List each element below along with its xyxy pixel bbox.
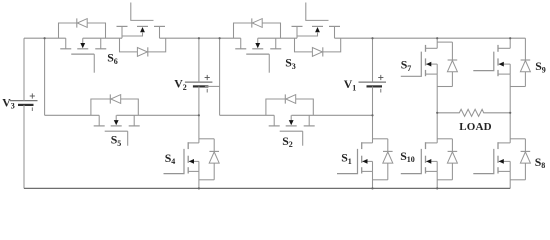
wire <box>44 38 46 115</box>
battery V1 <box>359 81 387 83</box>
wire <box>258 37 297 39</box>
diode of S5 <box>91 99 138 115</box>
svg-text:S4: S4 <box>165 151 176 166</box>
wire <box>509 38 511 48</box>
transistor S3 right FET <box>292 25 303 27</box>
svg-text:V3: V3 <box>2 95 15 110</box>
wire <box>335 37 526 39</box>
wire <box>83 37 122 39</box>
wire <box>24 37 66 39</box>
wire bottom rail <box>24 187 510 189</box>
svg-text:S7: S7 <box>401 58 412 73</box>
transistor S9 <box>497 45 499 52</box>
wire <box>372 86 374 115</box>
wire <box>436 38 438 48</box>
svg-text:S10: S10 <box>400 149 415 164</box>
transistor S1 <box>361 142 363 149</box>
transistor S2 <box>269 125 280 127</box>
wire <box>198 171 200 188</box>
diode of S1 <box>373 138 388 140</box>
wire <box>436 113 438 143</box>
diode of S4 <box>199 138 214 140</box>
diode of S2 <box>266 99 313 115</box>
battery V2 <box>185 81 213 83</box>
svg-text:S3: S3 <box>285 56 296 71</box>
wire <box>23 105 25 188</box>
wire <box>436 74 438 113</box>
wire <box>198 115 200 143</box>
svg-text:V2: V2 <box>174 77 187 92</box>
diode of S3 right FET <box>295 38 341 52</box>
transistor S6 right FET <box>117 25 128 27</box>
diode of S8 <box>510 138 525 140</box>
diode of S9 <box>524 38 526 60</box>
svg-text:LOAD: LOAD <box>459 121 492 133</box>
wire <box>160 37 241 39</box>
wire <box>198 38 200 82</box>
resistor LOAD <box>437 109 510 116</box>
wire <box>372 38 374 82</box>
junction dots <box>44 37 46 39</box>
diode of S10 <box>437 138 452 140</box>
svg-text:S8: S8 <box>535 155 546 170</box>
transistor S10 <box>425 142 427 149</box>
wire <box>45 114 100 116</box>
battery V3 <box>10 100 38 102</box>
wire <box>436 171 438 188</box>
transistor S5 <box>94 125 105 127</box>
wire <box>23 38 25 100</box>
wire <box>292 114 373 116</box>
svg-text:S5: S5 <box>111 133 122 148</box>
svg-text:V1: V1 <box>344 77 357 92</box>
wire <box>117 114 199 116</box>
wire <box>205 85 220 87</box>
svg-text:S2: S2 <box>282 134 293 149</box>
wire <box>372 171 374 188</box>
transistor S8 <box>497 142 499 149</box>
wire <box>372 115 374 143</box>
transistor S3 left FET <box>235 48 246 50</box>
wire <box>509 74 511 113</box>
svg-text:S6: S6 <box>107 51 118 66</box>
transistor S6 left FET <box>60 48 71 50</box>
wire <box>509 113 511 143</box>
svg-text:S9: S9 <box>535 59 546 74</box>
wire <box>219 38 221 115</box>
transistor S7 <box>425 45 427 52</box>
wire <box>220 114 275 116</box>
diode of S7 <box>437 41 452 43</box>
wire <box>198 86 200 115</box>
diode of S6 left FET <box>59 23 106 38</box>
svg-text:S1: S1 <box>341 151 352 166</box>
wire <box>509 171 511 188</box>
transistor S4 <box>187 142 189 149</box>
diode of S3 left FET <box>234 23 281 38</box>
diode of S6 right FET <box>120 38 166 52</box>
